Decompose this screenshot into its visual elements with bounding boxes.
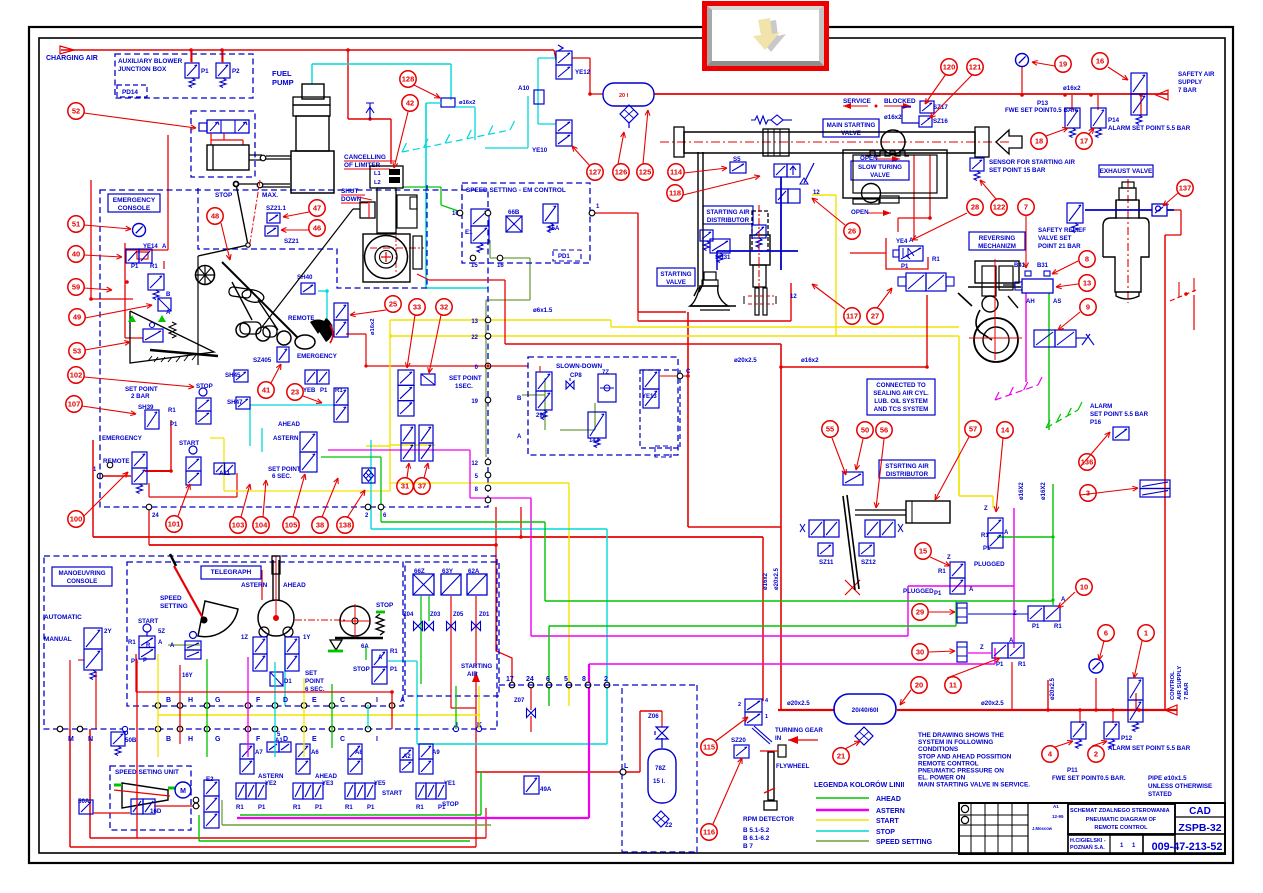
svg-text:C: C (340, 736, 345, 743)
svg-text:50A: 50A (78, 798, 90, 805)
svg-text:EMERGENCY: EMERGENCY (113, 197, 156, 204)
svg-text:19: 19 (1059, 60, 1067, 69)
svg-text:VALVE SET: VALVE SET (1038, 235, 1072, 242)
svg-text:21: 21 (837, 752, 845, 761)
svg-text:SLOWN-DOWN: SLOWN-DOWN (556, 363, 603, 370)
svg-text:P1: P1 (901, 264, 909, 270)
svg-text:1Z: 1Z (241, 635, 248, 641)
svg-text:10: 10 (1080, 583, 1088, 592)
svg-text:L1: L1 (374, 171, 382, 177)
svg-text:127: 127 (589, 168, 602, 177)
svg-text:9: 9 (1086, 303, 1090, 312)
svg-text:YE13: YE13 (642, 394, 657, 400)
svg-text:P1: P1 (258, 805, 266, 811)
svg-text:P16: P16 (1090, 419, 1102, 426)
svg-text:JUNCTION BOX: JUNCTION BOX (118, 66, 167, 73)
svg-text:18: 18 (1035, 137, 1043, 146)
svg-text:SZ12: SZ12 (861, 559, 876, 566)
svg-text:MAIN STARTING VALVE IN SERVICE: MAIN STARTING VALVE IN SERVICE. (918, 782, 1030, 789)
svg-text:ø16x2: ø16x2 (884, 114, 902, 121)
svg-text:ø16x2: ø16x2 (801, 357, 819, 364)
svg-text:C: C (340, 697, 345, 704)
svg-text:A7: A7 (255, 750, 263, 756)
svg-text:ø16X2: ø16X2 (1041, 482, 1047, 500)
svg-text:AHEAD: AHEAD (283, 582, 306, 589)
svg-text:P1: P1 (934, 591, 942, 597)
svg-text:P1: P1 (390, 667, 398, 673)
svg-text:PLUGGED: PLUGGED (903, 588, 934, 595)
svg-text:P1: P1 (1032, 624, 1040, 630)
svg-text:VALVE: VALVE (870, 172, 890, 179)
svg-text:R1: R1 (150, 264, 158, 270)
svg-text:19: 19 (471, 399, 478, 405)
svg-text:CHARGING AIR: CHARGING AIR (46, 55, 98, 62)
svg-text:H: H (188, 697, 193, 704)
svg-text:AUTOMATIC: AUTOMATIC (44, 614, 82, 621)
svg-text:G: G (215, 736, 221, 743)
svg-text:ASTERN: ASTERN (876, 808, 905, 815)
svg-text:I: I (376, 697, 378, 704)
svg-text:SPEED SETING UNIT: SPEED SETING UNIT (115, 769, 179, 776)
svg-text:ALARM SET POINT 5.5 BAR: ALARM SET POINT 5.5 BAR (1108, 745, 1191, 752)
svg-text:AIR: AIR (467, 671, 478, 678)
svg-text:LEGENDA KOLORÓW LINII: LEGENDA KOLORÓW LINII (814, 780, 904, 789)
svg-text:46: 46 (313, 224, 321, 233)
svg-text:B: B (166, 697, 171, 704)
svg-text:30: 30 (916, 648, 924, 657)
svg-text:49: 49 (73, 313, 81, 322)
svg-text:48: 48 (211, 212, 219, 221)
svg-text:SUPPLY: SUPPLY (1178, 79, 1203, 86)
svg-text:P1: P1 (996, 662, 1004, 668)
svg-text:CONSOLE: CONSOLE (67, 578, 98, 585)
svg-text:ASTERN: ASTERN (241, 582, 268, 589)
svg-text:SZ11: SZ11 (819, 559, 834, 566)
svg-text:116: 116 (703, 828, 715, 837)
svg-text:15 l.: 15 l. (653, 778, 665, 785)
svg-text:P1: P1 (438, 805, 446, 811)
svg-text:CAD: CAD (1189, 806, 1211, 817)
svg-text:SZ20: SZ20 (731, 737, 746, 744)
svg-text:125: 125 (639, 168, 652, 177)
svg-text:R1: R1 (1018, 662, 1026, 668)
svg-text:B: B (517, 396, 522, 402)
svg-text:122: 122 (993, 203, 1006, 212)
svg-text:STOP AND AHEAD POSSITION: STOP AND AHEAD POSSITION (918, 753, 1012, 760)
svg-text:101: 101 (168, 520, 181, 529)
svg-text:78Z: 78Z (655, 765, 666, 772)
svg-text:YE3: YE3 (322, 781, 334, 787)
svg-text:SZ21: SZ21 (284, 238, 299, 245)
svg-text:E: E (312, 736, 317, 743)
svg-text:117: 117 (846, 312, 858, 321)
svg-text:MANOEUVRING: MANOEUVRING (58, 570, 105, 577)
svg-text:MANUAL: MANUAL (44, 636, 72, 643)
svg-text:27: 27 (871, 312, 879, 321)
svg-text:2Y: 2Y (104, 628, 112, 635)
svg-text:115: 115 (703, 743, 715, 752)
svg-text:8: 8 (582, 676, 586, 683)
svg-text:P1: P1 (367, 805, 375, 811)
svg-text:CP8: CP8 (570, 373, 582, 379)
svg-text:ø6x1.5: ø6x1.5 (533, 307, 553, 314)
svg-text:MECHANIZM: MECHANIZM (978, 243, 1016, 250)
svg-text:12: 12 (790, 294, 797, 300)
svg-text:ø20x2.5: ø20x2.5 (774, 567, 780, 590)
svg-text:H: H (188, 736, 193, 743)
svg-text:VALVE: VALVE (841, 130, 861, 137)
svg-text:DISTRIBUTOR: DISTRIBUTOR (886, 471, 929, 478)
svg-text:PUMP: PUMP (272, 78, 294, 87)
svg-text:120: 120 (943, 63, 956, 72)
svg-text:AUXILIARY BLOWER: AUXILIARY BLOWER (118, 58, 183, 65)
svg-text:1: 1 (765, 714, 768, 720)
svg-text:Z07: Z07 (514, 698, 525, 704)
svg-text:102: 102 (70, 371, 83, 380)
svg-text:AIR SUPPLY: AIR SUPPLY (1177, 666, 1183, 700)
svg-text:L2: L2 (374, 180, 381, 186)
svg-text:6 SEC.: 6 SEC. (272, 473, 292, 480)
svg-text:AND TCS SYSTEM: AND TCS SYSTEM (874, 406, 929, 413)
svg-text:SET POINT: SET POINT (449, 375, 482, 382)
svg-text:ALARM SET POINT 5.5 BAR: ALARM SET POINT 5.5 BAR (1108, 125, 1191, 132)
svg-text:R1: R1 (335, 388, 343, 394)
svg-text:009-47-213-52: 009-47-213-52 (1152, 841, 1223, 853)
svg-text:8: 8 (1085, 255, 1089, 264)
svg-text:Z: Z (984, 506, 988, 512)
svg-text:Z: Z (947, 555, 951, 561)
svg-text:SENSOR FOR STARTING AIR: SENSOR FOR STARTING AIR (989, 159, 1075, 166)
svg-text:12: 12 (471, 461, 478, 467)
svg-text:16Y: 16Y (182, 673, 193, 679)
svg-text:1: 1 (1144, 629, 1148, 638)
svg-text:Z04: Z04 (403, 612, 414, 618)
svg-text:11: 11 (949, 681, 957, 690)
svg-text:OPEN: OPEN (851, 209, 869, 216)
svg-text:PD14: PD14 (122, 89, 138, 96)
svg-text:20 I: 20 I (619, 93, 629, 99)
svg-text:ø16X2: ø16X2 (1019, 482, 1025, 500)
svg-text:SPEED: SPEED (160, 595, 182, 602)
svg-text:SHUT: SHUT (341, 188, 358, 195)
svg-text:MAX.: MAX. (262, 192, 278, 199)
svg-text:B 6.1-6.2: B 6.1-6.2 (743, 835, 770, 842)
svg-text:41: 41 (262, 386, 270, 395)
svg-text:33: 33 (413, 303, 421, 312)
svg-text:FWE SET POINT0.5 BAR.: FWE SET POINT0.5 BAR. (1052, 775, 1126, 782)
svg-text:VALVE: VALVE (666, 279, 686, 286)
svg-text:SET POINT 5.5 BAR: SET POINT 5.5 BAR (1090, 411, 1149, 418)
svg-text:R1: R1 (168, 408, 176, 414)
svg-text:UNLESS OTHERWISE: UNLESS OTHERWISE (1148, 783, 1212, 790)
svg-text:TELEGRAPH: TELEGRAPH (211, 569, 252, 576)
svg-text:SPEED SETTING - EM CONTROL: SPEED SETTING - EM CONTROL (466, 187, 566, 194)
svg-text:L: L (624, 763, 629, 770)
svg-text:Z2: Z2 (665, 822, 673, 829)
svg-text:A10: A10 (518, 85, 530, 92)
svg-text:22: 22 (471, 335, 478, 341)
svg-text:25: 25 (389, 300, 397, 309)
svg-text:100: 100 (70, 515, 83, 524)
svg-text:55: 55 (826, 425, 834, 434)
svg-text:B 5.1-5.2: B 5.1-5.2 (743, 827, 770, 834)
svg-text:LUB. OIL SYSTEM: LUB. OIL SYSTEM (874, 398, 928, 405)
svg-text:7Z: 7Z (602, 370, 609, 376)
svg-text:F: F (256, 736, 261, 743)
svg-text:56: 56 (880, 426, 888, 435)
svg-text:P1: P1 (131, 264, 139, 270)
svg-text:53: 53 (73, 347, 81, 356)
svg-text:15: 15 (471, 263, 478, 269)
svg-text:40: 40 (72, 250, 80, 259)
svg-text:121: 121 (969, 63, 982, 72)
svg-text:ø16x2: ø16x2 (370, 319, 376, 335)
svg-text:26: 26 (848, 227, 856, 236)
svg-text:47: 47 (313, 204, 321, 213)
svg-text:105: 105 (285, 521, 298, 530)
svg-text:EXHAUST VALVE: EXHAUST VALVE (1100, 168, 1153, 175)
svg-text:R1: R1 (932, 257, 940, 263)
svg-text:R1: R1 (236, 805, 244, 811)
svg-text:CONDITIONS: CONDITIONS (918, 746, 959, 753)
svg-text:EMERGENCY: EMERGENCY (297, 353, 338, 360)
svg-text:SEALING AIR CYL.: SEALING AIR CYL. (873, 390, 929, 397)
svg-text:R1: R1 (1054, 624, 1062, 630)
svg-text:R1: R1 (128, 640, 136, 646)
svg-text:ø16x2: ø16x2 (1063, 85, 1081, 92)
svg-text:P13: P13 (1037, 100, 1049, 107)
svg-text:AH: AH (1026, 299, 1035, 305)
svg-text:C: C (686, 369, 691, 375)
svg-text:B31: B31 (1037, 263, 1049, 269)
svg-text:P14: P14 (1108, 117, 1120, 124)
svg-text:20/40/60I: 20/40/60I (852, 707, 879, 714)
svg-text:P12: P12 (1121, 735, 1133, 742)
svg-text:7: 7 (1024, 203, 1028, 212)
svg-text:SAFETY AIR: SAFETY AIR (1178, 71, 1215, 78)
svg-text:PIPE ø10x1.5: PIPE ø10x1.5 (1148, 775, 1187, 782)
svg-text:STOP: STOP (215, 192, 233, 199)
svg-text:107: 107 (68, 400, 81, 409)
svg-text:14: 14 (1001, 426, 1010, 435)
svg-text:16: 16 (497, 263, 504, 269)
svg-text:SET POINT: SET POINT (268, 466, 301, 473)
svg-text:B: B (166, 292, 171, 298)
svg-text:STARTING: STARTING (660, 271, 691, 278)
svg-text:15: 15 (919, 547, 927, 556)
svg-text:SLOW TURING: SLOW TURING (858, 164, 902, 171)
svg-text:A: A (969, 587, 974, 593)
svg-text:EL. POWER ON: EL. POWER ON (918, 775, 966, 782)
svg-text:REMOTE CONTROL: REMOTE CONTROL (1094, 825, 1148, 831)
svg-text:3: 3 (1086, 489, 1090, 498)
svg-text:126: 126 (615, 168, 628, 177)
svg-text:YEB: YEB (303, 388, 316, 394)
svg-text:STARTING: STARTING (461, 663, 492, 670)
svg-text:Z05: Z05 (453, 612, 464, 618)
svg-text:ø20x2.5: ø20x2.5 (734, 357, 757, 364)
svg-text:66B: 66B (508, 209, 520, 216)
svg-text:STATED: STATED (1148, 791, 1172, 798)
svg-text:ASTERN: ASTERN (258, 773, 284, 780)
svg-text:42: 42 (406, 99, 414, 108)
svg-text:P1: P1 (315, 805, 323, 811)
svg-text:R1: R1 (345, 805, 353, 811)
svg-text:POINT 21 BAR: POINT 21 BAR (1038, 243, 1081, 250)
svg-text:A1: A1 (1053, 804, 1059, 809)
svg-text:PLUGGED: PLUGGED (974, 561, 1005, 568)
svg-text:P1: P1 (201, 68, 209, 75)
svg-text:SCHEMAT ZDALNEGO STEROWANIA: SCHEMAT ZDALNEGO STEROWANIA (1070, 808, 1170, 814)
svg-text:104: 104 (255, 521, 268, 530)
svg-text:IN: IN (775, 735, 782, 742)
svg-text:29: 29 (916, 608, 924, 617)
svg-text:Z06: Z06 (648, 713, 659, 720)
svg-text:E1: E1 (465, 229, 473, 236)
svg-text:ASTERN: ASTERN (273, 435, 299, 442)
svg-text:31: 31 (401, 482, 409, 491)
svg-text:A: A (170, 643, 175, 649)
svg-text:FLYWHEEL: FLYWHEEL (776, 763, 810, 770)
svg-text:BLOCKED: BLOCKED (884, 98, 916, 105)
svg-text:1Y: 1Y (303, 635, 310, 641)
svg-text:A: A (1004, 530, 1009, 536)
svg-text:ø20x2.5: ø20x2.5 (787, 700, 810, 707)
svg-text:POZNAŃ S.A.: POZNAŃ S.A. (1070, 843, 1105, 851)
svg-text:A: A (517, 434, 522, 440)
svg-text:SERVICE: SERVICE (843, 98, 872, 105)
svg-text:A: A (158, 640, 163, 646)
svg-text:M: M (68, 736, 74, 743)
svg-text:CONNECTED TO: CONNECTED TO (876, 382, 926, 389)
svg-text:6A: 6A (361, 644, 369, 650)
svg-text:7 BAR: 7 BAR (1178, 87, 1197, 94)
svg-text:13: 13 (1083, 279, 1091, 288)
svg-text:52: 52 (72, 107, 80, 116)
svg-text:SET POINT: SET POINT (125, 386, 158, 393)
svg-text:MAIN STARTING: MAIN STARTING (827, 122, 876, 129)
svg-text:P11: P11 (1067, 767, 1078, 774)
svg-text:J.Moscow: J.Moscow (1032, 826, 1053, 831)
svg-text:5Z: 5Z (158, 629, 165, 635)
svg-text:103: 103 (232, 521, 245, 530)
svg-text:START: START (179, 440, 199, 447)
svg-text:50B: 50B (125, 737, 137, 744)
svg-text:59: 59 (72, 283, 80, 292)
svg-text:2: 2 (1094, 750, 1098, 759)
svg-text:PD1: PD1 (558, 254, 570, 260)
svg-text:P2: P2 (232, 68, 240, 75)
svg-text:P1: P1 (170, 422, 178, 428)
svg-text:SZ405: SZ405 (253, 357, 272, 364)
svg-text:START: START (876, 818, 900, 825)
svg-text:138: 138 (339, 521, 352, 530)
svg-text:23: 23 (291, 388, 299, 397)
svg-text:Z: Z (980, 645, 984, 651)
svg-text:CANCELLING: CANCELLING (344, 154, 386, 161)
svg-text:AHEAD: AHEAD (876, 796, 901, 803)
svg-text:SH40: SH40 (297, 274, 313, 281)
svg-text:SET POINT 15 BAR: SET POINT 15 BAR (989, 167, 1046, 174)
svg-text:ø16x2: ø16x2 (763, 572, 769, 590)
svg-text:SETTING: SETTING (160, 603, 188, 610)
svg-text:ø20x2.5: ø20x2.5 (981, 700, 1004, 707)
svg-text:YE2: YE2 (265, 781, 277, 787)
svg-text:38: 38 (316, 521, 324, 530)
svg-text:P1: P1 (131, 659, 139, 665)
svg-text:5: 5 (564, 676, 568, 683)
svg-text:POINT: POINT (305, 678, 324, 685)
svg-text:PNEUMATIC DIAGRAM OF: PNEUMATIC DIAGRAM OF (1086, 817, 1157, 823)
svg-text:R1: R1 (938, 569, 946, 575)
svg-text:AHEAD: AHEAD (278, 421, 301, 428)
svg-text:YE5: YE5 (374, 781, 386, 787)
svg-text:I: I (376, 736, 378, 743)
svg-text:B 7: B 7 (743, 843, 753, 850)
svg-text:YE12: YE12 (575, 69, 591, 76)
svg-text:6: 6 (1104, 629, 1108, 638)
svg-text:114: 114 (670, 168, 683, 177)
svg-text:57: 57 (969, 425, 977, 434)
svg-text:A: A (162, 244, 167, 250)
svg-text:SYSTEM IN FOLLOWING: SYSTEM IN FOLLOWING (918, 739, 993, 746)
svg-text:12: 12 (813, 190, 820, 196)
svg-text:RPM DETECTOR: RPM DETECTOR (743, 816, 794, 823)
svg-text:EMERGENCY: EMERGENCY (102, 435, 143, 442)
svg-text:SAFETY RELIEF: SAFETY RELIEF (1038, 227, 1086, 234)
svg-text:P1: P1 (983, 546, 991, 552)
svg-text:2: 2 (738, 702, 741, 708)
svg-text:B: B (166, 736, 171, 743)
svg-text:CONSOLE: CONSOLE (118, 205, 151, 212)
svg-text:118: 118 (669, 189, 681, 198)
svg-text:Z03: Z03 (430, 612, 441, 618)
svg-text:ø16x2: ø16x2 (459, 100, 475, 106)
svg-text:137: 137 (1179, 184, 1192, 193)
svg-text:AHEAD: AHEAD (315, 773, 338, 780)
svg-text:A6: A6 (311, 750, 319, 756)
svg-text:13: 13 (471, 319, 478, 325)
svg-text:YE10: YE10 (532, 147, 548, 154)
svg-text:REMOTE: REMOTE (288, 315, 314, 322)
svg-text:ZSPB-32: ZSPB-32 (1178, 822, 1221, 834)
svg-text:28: 28 (971, 203, 979, 212)
svg-text:A2: A2 (403, 754, 411, 760)
svg-text:START: START (382, 790, 402, 797)
svg-text:STSRTING AIR: STSRTING AIR (885, 463, 929, 470)
svg-text:20: 20 (915, 681, 923, 690)
svg-text:STOP: STOP (196, 383, 213, 390)
svg-text:ALARM: ALARM (1090, 403, 1112, 410)
svg-text:TURNING GEAR: TURNING GEAR (775, 727, 823, 734)
svg-text:AS: AS (1053, 299, 1061, 305)
svg-text:SPEED SETTING: SPEED SETTING (876, 839, 933, 846)
svg-text:128: 128 (402, 75, 415, 84)
svg-text:YE4: YE4 (896, 239, 908, 245)
svg-text:Z01: Z01 (479, 612, 490, 618)
svg-text:A: A (400, 697, 405, 704)
svg-text:R1: R1 (416, 805, 424, 811)
svg-text:STOP: STOP (876, 829, 895, 836)
svg-text:FUEL: FUEL (272, 69, 292, 78)
svg-text:STOP: STOP (376, 602, 394, 609)
svg-text:2 BAR: 2 BAR (131, 393, 150, 400)
svg-text:7 BAR: 7 BAR (1184, 682, 1190, 700)
svg-text:R1: R1 (293, 805, 301, 811)
svg-text:50: 50 (861, 426, 869, 435)
svg-text:E: E (312, 697, 317, 704)
svg-text:12-95: 12-95 (1052, 814, 1064, 819)
